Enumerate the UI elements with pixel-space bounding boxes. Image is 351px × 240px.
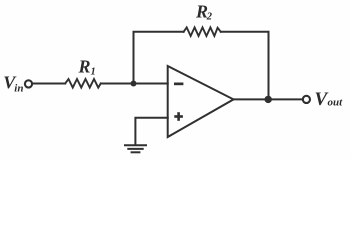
svg-text:in: in bbox=[14, 83, 23, 95]
svg-text:2: 2 bbox=[206, 12, 213, 23]
svg-text:out: out bbox=[328, 97, 344, 109]
svg-text:R: R bbox=[78, 56, 91, 76]
svg-text:1: 1 bbox=[91, 67, 96, 78]
svg-text:V: V bbox=[315, 89, 329, 110]
